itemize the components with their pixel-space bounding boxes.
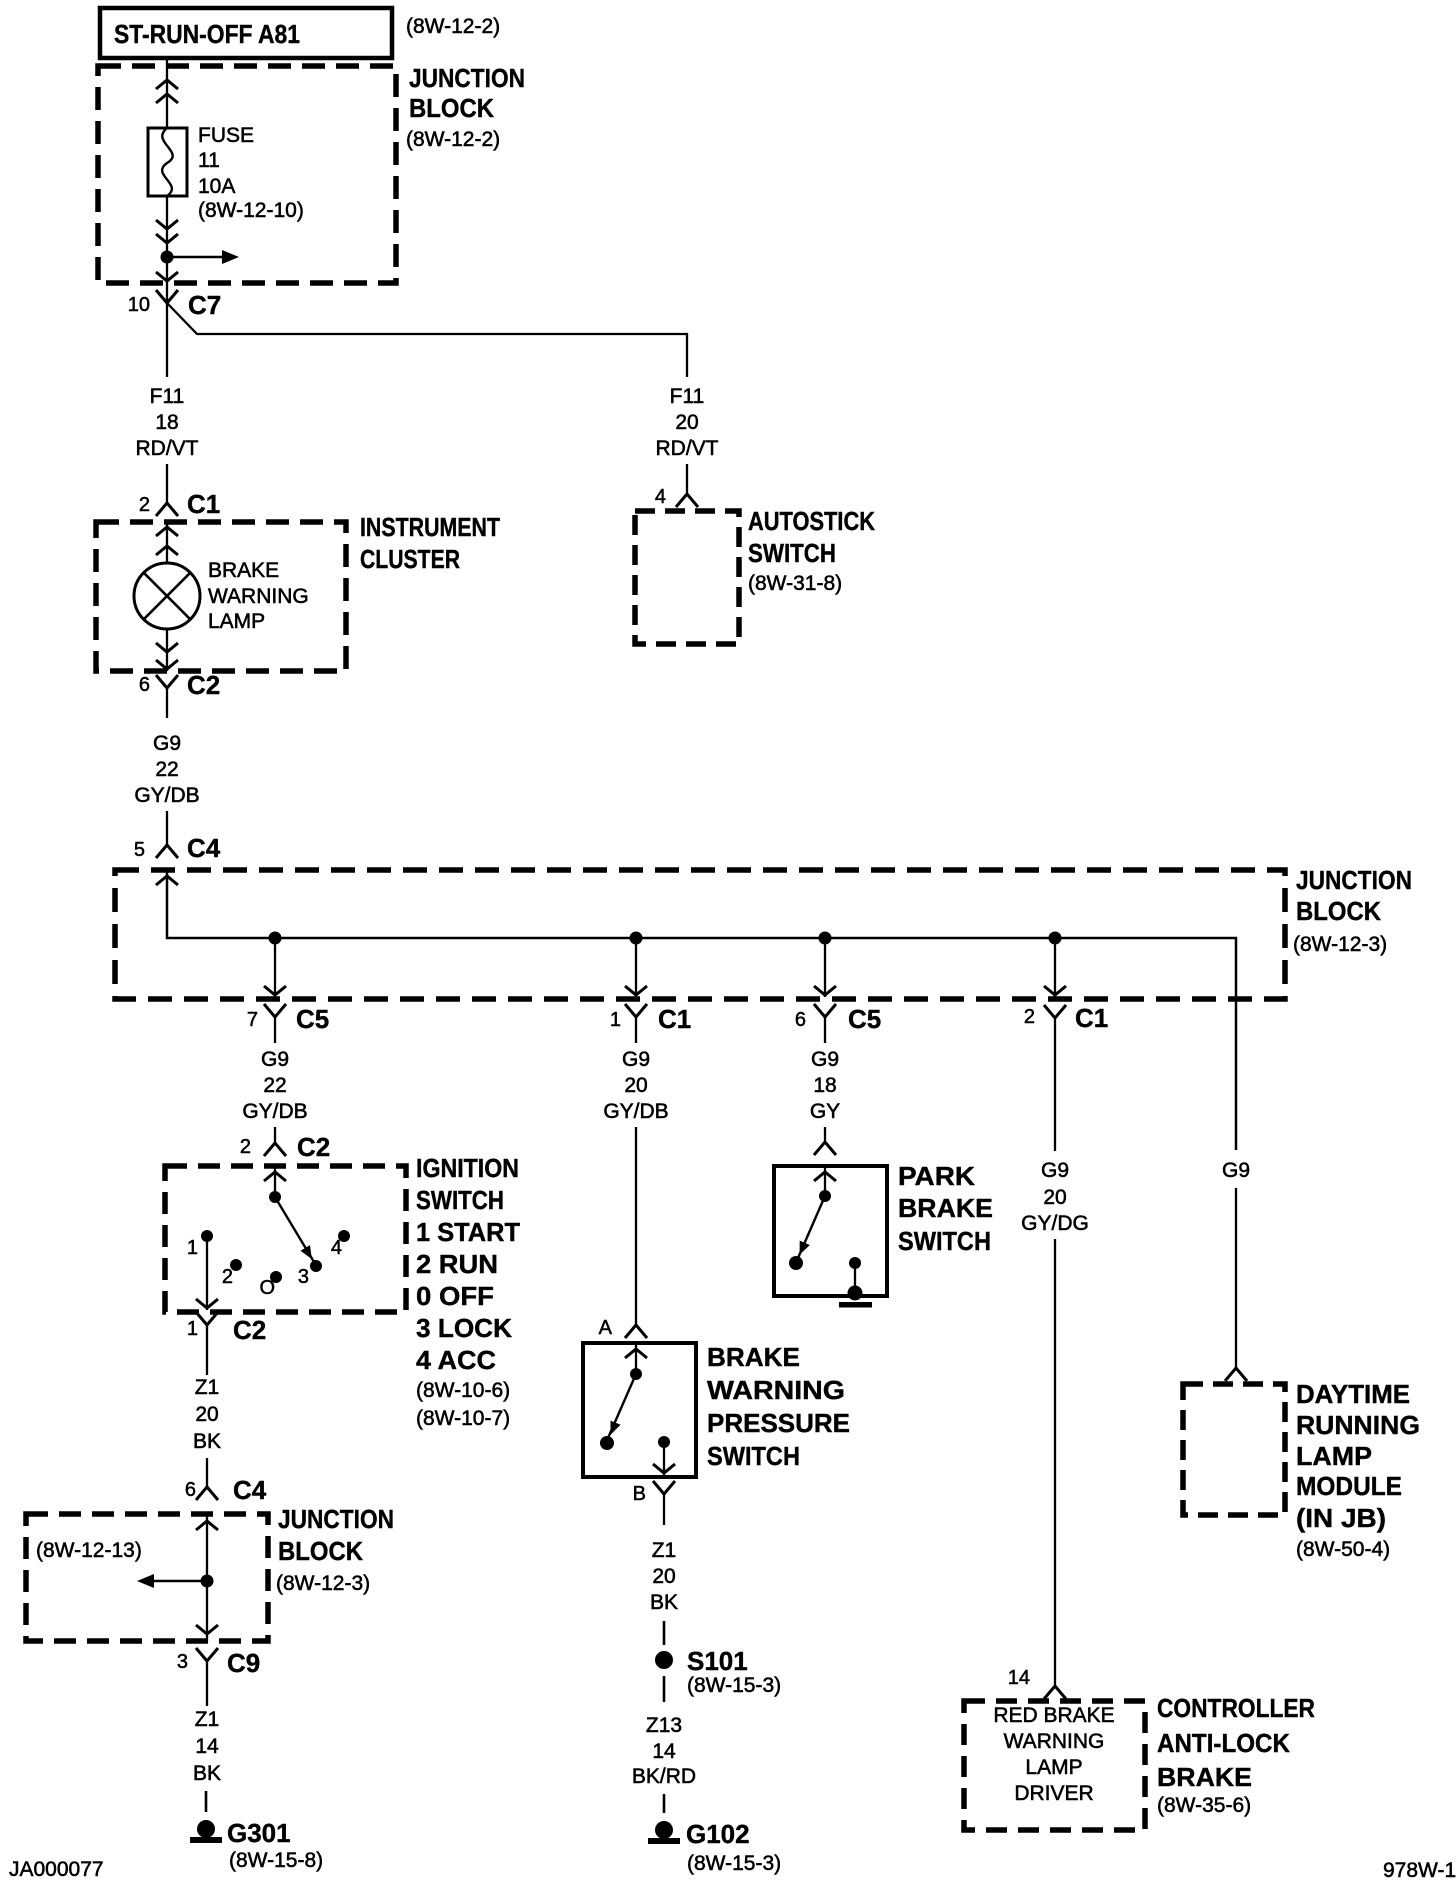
ignition contact 2 (222, 1259, 242, 1288)
wire G9 20 GY/DG (controller feed) (1021, 1159, 1089, 1686)
svg-text:0 OFF: 0 OFF (416, 1281, 494, 1311)
ignition switch label (416, 1153, 520, 1430)
connector C5 pin 6 (795, 1004, 881, 1043)
svg-text:RD/VT: RD/VT (656, 437, 719, 460)
svg-text:(8W-12-10): (8W-12-10) (198, 199, 304, 222)
svg-text:G102: G102 (686, 1819, 750, 1849)
connector C9 pin 3 (177, 1648, 260, 1706)
wire G9 18 GY (park brake feed) (810, 1048, 840, 1142)
svg-text:C4: C4 (187, 833, 221, 863)
ignition switch common node (269, 1166, 281, 1203)
svg-text:C5: C5 (296, 1004, 329, 1034)
connector (daytime running lamp module) (1225, 1368, 1247, 1381)
svg-text:14: 14 (652, 1740, 676, 1763)
wire branch from C7 to autostick switch column (167, 303, 687, 377)
svg-text:G9: G9 (622, 1048, 650, 1071)
ignition contact 3 (298, 1260, 322, 1288)
svg-text:CONTROLLER: CONTROLLER (1157, 1693, 1315, 1723)
svg-text:C2: C2 (187, 670, 220, 700)
svg-text:GY/DG: GY/DG (1021, 1212, 1089, 1235)
wire Z13 14 BK/RD (632, 1714, 696, 1813)
svg-text:C5: C5 (848, 1004, 881, 1034)
svg-text:SWITCH: SWITCH (707, 1441, 800, 1471)
svg-text:DRIVER: DRIVER (1014, 1782, 1093, 1805)
svg-text:F11: F11 (150, 385, 185, 408)
wire G9 22 GY/DB (ignition feed) (242, 1048, 307, 1143)
ignition switch arm to position 3 (275, 1197, 314, 1262)
svg-text:(8W-12-3): (8W-12-3) (1293, 933, 1387, 956)
svg-text:C7: C7 (188, 290, 221, 320)
brake warning lamp (circle with X) (134, 559, 309, 633)
svg-text:WARNING: WARNING (208, 585, 309, 608)
svg-text:Z1: Z1 (652, 1539, 677, 1562)
bus junction node 4 (1049, 932, 1062, 945)
svg-text:3 LOCK: 3 LOCK (416, 1313, 512, 1343)
svg-text:JUNCTION: JUNCTION (278, 1504, 394, 1534)
svg-text:1: 1 (187, 1318, 198, 1340)
drop wire to C1 pin 2 (1044, 938, 1066, 997)
svg-text:2: 2 (222, 1266, 233, 1288)
svg-text:18: 18 (813, 1074, 836, 1097)
connector C2 pin 1 (187, 1312, 266, 1375)
svg-text:(8W-15-8): (8W-15-8) (229, 1849, 323, 1872)
wire Z1 20 BK (ignition ground) (193, 1376, 221, 1487)
wire A81 to fuse (166, 58, 168, 128)
brake warning pressure switch box (583, 1343, 696, 1477)
svg-text:4: 4 (331, 1237, 342, 1259)
connector C1 pin 2 (1024, 1003, 1108, 1151)
connector pin 14 (CAB) (1008, 1667, 1066, 1699)
svg-text:LAMP: LAMP (1025, 1756, 1082, 1779)
svg-text:B: B (633, 1483, 646, 1505)
svg-text:GY: GY (810, 1100, 840, 1123)
svg-text:6: 6 (139, 674, 150, 696)
reference (8W-12-13) (36, 1539, 142, 1562)
svg-text:(8W-35-6): (8W-35-6) (1157, 1794, 1251, 1817)
svg-text:10A: 10A (198, 175, 235, 198)
connector pin 4 (autostick) (655, 486, 698, 508)
connector pin B (633, 1481, 675, 1525)
reference (8W-12-2) for A81 (406, 15, 500, 38)
svg-text:10: 10 (128, 294, 150, 316)
svg-text:BK: BK (650, 1591, 678, 1614)
sheet id 978W-1 (1383, 1859, 1456, 1882)
junction block label (406, 63, 525, 151)
svg-text:20: 20 (652, 1565, 675, 1588)
svg-text:C9: C9 (227, 1648, 260, 1678)
instrument cluster dashed box (96, 522, 346, 671)
svg-text:C2: C2 (297, 1132, 330, 1162)
connector C4 pin 5 (134, 833, 221, 863)
svg-text:RD/VT: RD/VT (136, 437, 199, 460)
park brake switch label (898, 1161, 993, 1256)
svg-text:6: 6 (185, 1479, 196, 1501)
svg-text:INSTRUMENT: INSTRUMENT (360, 512, 500, 542)
svg-text:(8W-12-2): (8W-12-2) (406, 128, 500, 151)
junction block (8W-12-13) dashed box (26, 1514, 268, 1641)
svg-text:2: 2 (139, 494, 150, 516)
splice node with branch arrow to other circuits (161, 250, 240, 264)
sheet id JA000077 (9, 1858, 104, 1881)
ignition contact O (259, 1271, 282, 1299)
svg-text:G301: G301 (227, 1818, 291, 1848)
svg-text:6: 6 (795, 1009, 806, 1031)
svg-text:20: 20 (1043, 1186, 1066, 1209)
park brake switch box (774, 1166, 887, 1296)
ignition contact 1 with wire to C2 (187, 1230, 218, 1310)
pressure switch contact lower left (600, 1436, 614, 1450)
svg-text:JUNCTION: JUNCTION (1296, 865, 1412, 895)
svg-text:20: 20 (675, 411, 698, 434)
svg-text:14: 14 (195, 1735, 219, 1758)
bus junction node 2 (630, 932, 643, 945)
wire Z1 14 BK (193, 1708, 221, 1812)
svg-text:3: 3 (177, 1651, 188, 1673)
daytime running lamp module dashed box (1183, 1384, 1285, 1515)
wire lamp to connector C2 with chevrons (156, 629, 178, 671)
svg-text:22: 22 (263, 1074, 286, 1097)
svg-text:Z1: Z1 (195, 1376, 220, 1399)
svg-text:BRAKE: BRAKE (707, 1342, 800, 1372)
svg-text:BLOCK: BLOCK (409, 93, 494, 123)
svg-text:AUTOSTICK: AUTOSTICK (748, 506, 875, 536)
park brake common contact (819, 1166, 831, 1202)
svg-text:GY/DB: GY/DB (242, 1100, 307, 1123)
svg-text:C4: C4 (233, 1475, 267, 1505)
svg-text:BK: BK (193, 1430, 221, 1453)
svg-text:(8W-10-6): (8W-10-6) (416, 1379, 510, 1402)
pressure switch contact B with wire down (653, 1436, 675, 1477)
svg-text:SWITCH: SWITCH (898, 1226, 991, 1256)
svg-text:G9: G9 (811, 1048, 839, 1071)
wire G9 22 GY/DB (134, 732, 199, 845)
svg-text:CLUSTER: CLUSTER (360, 544, 460, 574)
park brake contact lower left (789, 1256, 803, 1270)
ground G102 (648, 1819, 781, 1875)
controller anti-lock brake label (1157, 1693, 1315, 1817)
svg-text:GY/DB: GY/DB (603, 1100, 668, 1123)
svg-text:20: 20 (624, 1074, 647, 1097)
entry chevron ignition (264, 1172, 286, 1181)
svg-text:BRAKE: BRAKE (1157, 1762, 1252, 1792)
junction block 3 label (276, 1504, 394, 1595)
wire G9 20 GY/DB (pressure switch feed) (603, 1048, 668, 1325)
arrow chevron down at block exit (156, 272, 178, 281)
svg-text:WARNING: WARNING (1004, 1730, 1105, 1753)
svg-text:1 START: 1 START (416, 1217, 520, 1247)
connector C2 pin 2 (ignition entry) (240, 1132, 330, 1162)
svg-text:BLOCK: BLOCK (278, 1536, 363, 1566)
svg-text:C1: C1 (658, 1004, 691, 1034)
svg-text:3: 3 (298, 1266, 309, 1288)
drop wire to C5 pin 7 (264, 938, 286, 997)
controller anti-lock brake dashed box (964, 1701, 1145, 1830)
svg-text:1: 1 (187, 1237, 198, 1259)
svg-text:LAMP: LAMP (1296, 1441, 1372, 1471)
pressure switch common contact (630, 1343, 642, 1380)
svg-text:BK: BK (193, 1762, 221, 1785)
svg-text:G9: G9 (153, 732, 181, 755)
svg-text:DAYTIME: DAYTIME (1296, 1379, 1410, 1409)
svg-text:5: 5 (134, 839, 145, 861)
connector (park brake entry) (814, 1142, 836, 1155)
junction block (8W-12-2) dashed box (98, 66, 396, 283)
svg-text:FUSE: FUSE (198, 124, 254, 147)
svg-text:20: 20 (195, 1403, 218, 1426)
wire into cluster with chevrons (156, 520, 178, 563)
svg-text:Z13: Z13 (646, 1714, 682, 1737)
ignition contact 4 (331, 1230, 350, 1259)
svg-text:O: O (259, 1277, 275, 1299)
internal bus wire (167, 870, 1236, 1150)
instrument cluster label (360, 512, 500, 574)
pressure switch label (707, 1342, 850, 1471)
autostick switch dashed box (635, 511, 739, 644)
svg-text:(8W-15-3): (8W-15-3) (687, 1852, 781, 1875)
park brake switch arm with arrow (798, 1196, 825, 1258)
bus junction node 3 (819, 932, 832, 945)
svg-text:Z1: Z1 (195, 1708, 220, 1731)
svg-text:22: 22 (155, 758, 178, 781)
svg-text:978W-1: 978W-1 (1383, 1859, 1456, 1882)
svg-text:C2: C2 (233, 1315, 266, 1345)
svg-text:ANTI-LOCK: ANTI-LOCK (1157, 1728, 1290, 1758)
entry chevron park brake (814, 1172, 836, 1181)
svg-text:F11: F11 (670, 385, 705, 408)
svg-text:JA000077: JA000077 (9, 1858, 104, 1881)
svg-text:BRAKE: BRAKE (898, 1193, 993, 1223)
bus junction node 1 (269, 932, 282, 945)
svg-text:PARK: PARK (898, 1161, 975, 1191)
red brake warning lamp driver text (993, 1704, 1114, 1805)
svg-text:(8W-15-3): (8W-15-3) (687, 1674, 781, 1697)
svg-text:(8W-31-8): (8W-31-8) (748, 572, 842, 595)
junction block (8W-12-3) dashed box (115, 870, 1285, 999)
svg-text:IGNITION: IGNITION (416, 1153, 519, 1183)
svg-text:RED BRAKE: RED BRAKE (993, 1704, 1114, 1727)
entry chevron block 3 (196, 1521, 218, 1530)
svg-text:(8W-50-4): (8W-50-4) (1296, 1538, 1390, 1561)
drop wire to C5 pin 6 (814, 938, 836, 997)
svg-text:A: A (599, 1317, 613, 1339)
wire fuse to connector C7 (166, 196, 168, 303)
svg-text:C1: C1 (187, 489, 220, 519)
svg-text:S101: S101 (687, 1646, 748, 1676)
connector C1 pin 2 (139, 489, 220, 519)
connector pin A (599, 1317, 647, 1339)
wire GY label and connector (park brake) (0, 0, 1, 1)
svg-text:BK/RD: BK/RD (632, 1765, 696, 1788)
svg-text:4: 4 (655, 486, 666, 508)
svg-text:7: 7 (247, 1009, 258, 1031)
connector C2 pin 6 (139, 670, 220, 718)
pressure switch arm with arrow (608, 1374, 636, 1438)
svg-text:2: 2 (1024, 1006, 1035, 1028)
svg-text:(8W-12-2): (8W-12-2) (406, 15, 500, 38)
svg-text:(8W-12-13): (8W-12-13) (36, 1539, 142, 1562)
entry chevron into junction block 2 (156, 876, 178, 885)
svg-text:GY/DB: GY/DB (134, 784, 199, 807)
ignition switch dashed box (165, 1166, 406, 1312)
svg-text:(8W-10-7): (8W-10-7) (416, 1407, 510, 1430)
svg-text:(IN JB): (IN JB) (1296, 1503, 1386, 1533)
splice S101 (655, 1646, 781, 1702)
svg-text:JUNCTION: JUNCTION (409, 63, 525, 93)
svg-text:2: 2 (240, 1136, 251, 1158)
svg-text:11: 11 (198, 149, 220, 172)
connector C1 pin 1 (610, 1004, 691, 1043)
svg-text:WARNING: WARNING (707, 1375, 845, 1405)
svg-text:MODULE: MODULE (1296, 1471, 1402, 1501)
svg-text:PRESSURE: PRESSURE (707, 1408, 850, 1438)
wire F11 18 RD/VT (136, 303, 199, 503)
entry chevron pressure switch (625, 1349, 647, 1358)
svg-text:G9: G9 (261, 1048, 289, 1071)
drop wire to C1 pin 1 (625, 938, 647, 997)
svg-text:14: 14 (1008, 1667, 1030, 1689)
svg-text:BRAKE: BRAKE (208, 559, 279, 582)
ground G301 (190, 1818, 323, 1872)
wire Z1 20 BK (pressure switch ground) (650, 1539, 678, 1645)
connector C4 pin 6 (185, 1475, 267, 1505)
svg-text:4 ACC: 4 ACC (416, 1345, 496, 1375)
daytime running lamp module label (1296, 1379, 1420, 1561)
svg-text:SWITCH: SWITCH (416, 1185, 504, 1215)
power feed box ST-RUN-OFF A81 (100, 8, 392, 58)
svg-text:SWITCH: SWITCH (748, 538, 836, 568)
autostick switch label (748, 506, 875, 595)
svg-text:G9: G9 (1041, 1159, 1069, 1182)
arrow double chevron down (156, 220, 178, 243)
svg-text:LAMP: LAMP (208, 610, 265, 633)
svg-text:BLOCK: BLOCK (1296, 896, 1381, 926)
svg-text:RUNNING: RUNNING (1296, 1410, 1420, 1440)
svg-text:ST-RUN-OFF A81: ST-RUN-OFF A81 (114, 19, 300, 49)
svg-text:C1: C1 (1075, 1003, 1108, 1033)
svg-text:18: 18 (155, 411, 178, 434)
wire F11 20 RD/VT (656, 385, 719, 494)
wire G9 (daytime running lamp feed) (1222, 1159, 1250, 1368)
park brake grounded contact (839, 1257, 872, 1308)
junction block 2 label (1293, 865, 1412, 956)
internal wire with splice and branch arrow left (137, 1514, 218, 1641)
connector C5 pin 7 (247, 1004, 329, 1043)
connector C7 pin 10 (128, 290, 222, 320)
fuse 11 10A (148, 124, 304, 222)
svg-text:(8W-12-3): (8W-12-3) (276, 1572, 370, 1595)
arrow double chevron up (156, 80, 178, 103)
svg-text:1: 1 (610, 1009, 621, 1031)
svg-text:2 RUN: 2 RUN (416, 1249, 498, 1279)
svg-text:G9: G9 (1222, 1159, 1250, 1182)
